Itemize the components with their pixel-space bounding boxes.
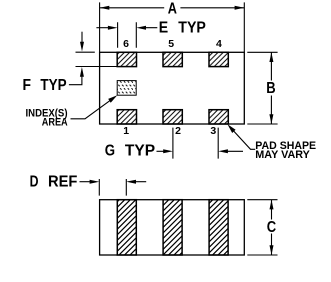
dimension D extension lines (99, 179, 126, 196)
terminal bar 3 (209, 200, 228, 255)
dimension A left arrowhead (100, 6, 110, 10)
svg-text:TYP: TYP (178, 19, 206, 36)
dimension E extension lines (118, 22, 137, 48)
pad shape leader (230, 127, 256, 150)
dimension F up arrow with leader elbow (69, 77, 82, 85)
dimension E right arrow (141, 27, 157, 29)
svg-text:D: D (30, 173, 39, 190)
dimension F lower extension line (76, 66, 118, 68)
dimension G left arrow (157, 150, 167, 152)
svg-text:C: C (267, 219, 276, 236)
svg-text:6: 6 (123, 38, 129, 50)
dimension G extension lines (173, 128, 218, 159)
dimension F down arrow (81, 32, 83, 43)
package outline (top view) (100, 52, 245, 124)
svg-text:4: 4 (216, 38, 222, 50)
dimension A line (100, 7, 245, 9)
index area leader (71, 97, 115, 119)
dimension E left arrow (96, 27, 112, 29)
svg-text:REF: REF (48, 173, 77, 190)
svg-text:5: 5 (168, 38, 174, 50)
dimension B line (270, 52, 272, 124)
svg-text:3: 3 (210, 125, 216, 137)
pad shape leader arrowhead (228, 124, 236, 133)
svg-text:AREA: AREA (42, 117, 68, 129)
dimension C bottom arrowhead (270, 245, 274, 255)
dimension G right arrow (224, 150, 243, 152)
pad 5 (163, 52, 182, 66)
package outline (side view) (100, 200, 245, 255)
pad 2 (163, 110, 182, 124)
svg-text:E: E (159, 19, 168, 36)
dimension B extension lines (247, 52, 277, 124)
svg-text:MAY VARY: MAY VARY (255, 149, 310, 161)
dimension D left arrow (80, 181, 93, 183)
dimension C line (271, 200, 273, 255)
svg-text:1: 1 (123, 125, 129, 137)
svg-text:F: F (23, 77, 32, 94)
pad 4 (209, 52, 228, 66)
pad 3 (209, 110, 228, 124)
pad 6 (117, 52, 136, 66)
index area square (117, 81, 136, 96)
dimension B top arrowhead (269, 52, 273, 62)
index leader arrowhead (108, 95, 117, 103)
svg-text:TYP: TYP (40, 77, 66, 94)
dimension D right arrow (132, 181, 146, 183)
dimension F upper extension line (76, 51, 95, 53)
svg-text:A: A (168, 1, 177, 18)
dimension C top arrowhead (270, 200, 274, 210)
dimension A extension lines (100, 2, 245, 52)
svg-text:2: 2 (175, 125, 181, 137)
terminal bar 2 (163, 200, 182, 255)
svg-text:TYP: TYP (125, 143, 155, 160)
svg-text:B: B (266, 80, 275, 97)
dimension B bottom arrowhead (269, 114, 273, 124)
svg-text:G: G (105, 143, 115, 160)
pad 1 (117, 110, 136, 124)
terminal bar 1 (117, 200, 136, 255)
dimension A right arrowhead (235, 6, 245, 10)
dimension C extension lines (247, 200, 277, 255)
